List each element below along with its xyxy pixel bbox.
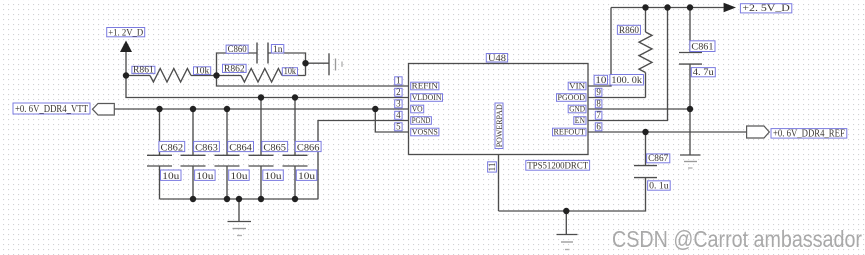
pin number box 2 bbox=[395, 88, 402, 96]
junction pin11 rail ground bbox=[563, 208, 569, 214]
svg-text:CSDN @Carrot ambassador: CSDN @Carrot ambassador bbox=[612, 226, 862, 252]
junction rail C865 bbox=[258, 196, 264, 202]
resistor R862 bbox=[241, 69, 282, 83]
svg-text:C865: C865 bbox=[263, 143, 286, 153]
wire VTT port to VO pin 3 bbox=[114, 108, 408, 110]
pin number box 4 bbox=[395, 111, 402, 119]
label box R862 bbox=[223, 64, 247, 72]
svg-text:C860: C860 bbox=[228, 44, 247, 54]
svg-text:C863: C863 bbox=[195, 143, 218, 153]
svg-text:10u: 10u bbox=[298, 172, 315, 182]
ground rail wire bbox=[160, 198, 319, 200]
svg-text:1n: 1n bbox=[273, 44, 283, 54]
pin number box 11 bbox=[488, 162, 497, 172]
ground (center left) bars bbox=[228, 221, 252, 223]
pin number box 6 bbox=[595, 123, 602, 131]
junction rail ground stem bbox=[236, 196, 242, 202]
capacitor C864 bbox=[215, 109, 240, 199]
svg-text:+0. 6V_DDR4_REF: +0. 6V_DDR4_REF bbox=[773, 128, 845, 139]
svg-text:GND: GND bbox=[569, 104, 585, 114]
label box VLDOIN bbox=[411, 94, 443, 102]
wire PGND pin 4 bbox=[318, 121, 409, 200]
label box TPS51200DRCT bbox=[526, 160, 590, 170]
svg-text:C867: C867 bbox=[648, 154, 669, 164]
wire EN pin 7 to +2.5V bbox=[588, 8, 668, 121]
capacitor C860 plates bbox=[257, 43, 268, 64]
svg-text:10: 10 bbox=[595, 76, 606, 86]
label box VO bbox=[411, 105, 424, 113]
label box C866 bbox=[295, 141, 321, 151]
svg-text:1: 1 bbox=[396, 76, 401, 86]
label box C863 bbox=[194, 141, 220, 151]
junction REFOUT/C867 bbox=[642, 129, 648, 135]
junction rail C863 bbox=[190, 196, 196, 202]
pin number box 8 bbox=[595, 100, 602, 108]
wire R861 row left bbox=[126, 75, 150, 77]
label box C861 bbox=[690, 41, 715, 52]
wire pin 11 to C867 bottom bbox=[499, 178, 646, 211]
junction 2.5V R860 bbox=[642, 4, 648, 10]
label box 10u C862 bbox=[161, 170, 182, 180]
wire C860 branch left bbox=[217, 53, 258, 76]
label box POWERPAD bbox=[495, 103, 503, 149]
wire R862 to node B bbox=[282, 75, 306, 77]
junction C862 top bbox=[156, 106, 162, 112]
label box +1.2V_D bbox=[107, 28, 145, 37]
label box 10u C865 bbox=[263, 170, 284, 180]
label box C867 bbox=[647, 154, 670, 163]
label box 10k R861 bbox=[194, 67, 211, 75]
junction GND/C861/ground bbox=[687, 106, 693, 112]
junction 2.5V C861 bbox=[687, 4, 693, 10]
ground (bottom center) bars bbox=[557, 234, 578, 236]
pin number box 10 bbox=[594, 75, 607, 84]
chip U48 body bbox=[409, 64, 589, 155]
pin number box 1 bbox=[395, 77, 402, 85]
wire R862 bottom branch left lead bbox=[217, 75, 242, 77]
port +0.6V_DDR4_REF pentagon bbox=[747, 126, 770, 138]
label box EN bbox=[574, 117, 586, 125]
svg-text:C864: C864 bbox=[229, 143, 252, 153]
resistor R861 bbox=[150, 69, 191, 83]
label box GND bbox=[568, 105, 586, 113]
svg-text:10u: 10u bbox=[231, 172, 248, 182]
svg-text:6: 6 bbox=[596, 122, 601, 132]
svg-text:VIN: VIN bbox=[569, 81, 586, 91]
label box +0.6V_DDR4_VTT bbox=[13, 103, 90, 114]
svg-text:11: 11 bbox=[487, 163, 497, 172]
wire +2.5V rail bbox=[611, 7, 724, 9]
label box REFOUT bbox=[553, 128, 587, 136]
svg-text:10k: 10k bbox=[195, 65, 210, 75]
junction node B ground tap bbox=[302, 60, 308, 66]
pin 11 POWERPAD stub bbox=[498, 155, 500, 212]
wire node A to REFIN pin 1 bbox=[217, 76, 409, 87]
label box PGND bbox=[411, 117, 432, 125]
wire PGOOD pin 9 bbox=[588, 97, 646, 99]
label box +2.5V_D bbox=[740, 4, 791, 13]
svg-text:10u: 10u bbox=[196, 172, 213, 182]
wire C860 branch right bbox=[268, 53, 306, 76]
power flag +2.5V_D triangle bbox=[724, 3, 736, 12]
svg-text:10u: 10u bbox=[162, 172, 179, 182]
svg-text:REFOUT: REFOUT bbox=[554, 127, 586, 137]
label box VIN bbox=[568, 82, 586, 90]
label box PGOOD bbox=[557, 94, 587, 102]
svg-text:TPS51200DRCT: TPS51200DRCT bbox=[527, 161, 588, 171]
svg-text:10u: 10u bbox=[265, 172, 282, 182]
junction node A R861/R862/REFIN bbox=[213, 72, 219, 78]
junction C865 top bbox=[258, 94, 264, 100]
label box C864 bbox=[228, 141, 254, 151]
svg-text:REFIN: REFIN bbox=[412, 81, 439, 91]
resistor R860 zigzag bbox=[639, 32, 652, 73]
junction C866 top bbox=[292, 94, 298, 100]
svg-text:0. 1u: 0. 1u bbox=[649, 182, 669, 192]
svg-text:R861: R861 bbox=[133, 65, 154, 75]
svg-text:VOSNS: VOSNS bbox=[412, 127, 438, 137]
pin number box 7 bbox=[595, 111, 602, 119]
svg-text:VO: VO bbox=[412, 104, 423, 114]
label box R861 bbox=[132, 66, 155, 73]
junction rail C866 bbox=[292, 196, 298, 202]
svg-text:PGND: PGND bbox=[412, 115, 431, 125]
ground (right) bars bbox=[680, 154, 701, 156]
label box +0.6V_DDR4_REF bbox=[771, 129, 847, 139]
power flag +1.2V_D stem bbox=[125, 52, 127, 76]
label box 10u C863 bbox=[195, 170, 216, 180]
label box 10k R862 bbox=[282, 68, 297, 76]
ground (right) stem bbox=[689, 109, 691, 155]
svg-text:R862: R862 bbox=[224, 63, 245, 73]
svg-text:EN: EN bbox=[575, 115, 586, 125]
svg-text:C862: C862 bbox=[161, 143, 184, 153]
svg-text:POWERPAD: POWERPAD bbox=[495, 104, 504, 147]
svg-text:4. 7u: 4. 7u bbox=[693, 68, 714, 78]
label box U48 bbox=[486, 54, 507, 63]
capacitor C865 bbox=[249, 98, 274, 200]
svg-text:U48: U48 bbox=[488, 53, 507, 63]
label box VOSNS bbox=[411, 128, 439, 136]
svg-text:8: 8 bbox=[596, 99, 601, 109]
svg-text:C861: C861 bbox=[691, 42, 713, 53]
label box 4.7u bbox=[691, 68, 715, 77]
wire R861 to node A bbox=[191, 75, 217, 77]
label box 10u C866 bbox=[296, 170, 317, 180]
pin number box 5 bbox=[395, 123, 402, 131]
power flag +1.2V_D triangle bbox=[120, 41, 132, 53]
svg-text:R860: R860 bbox=[619, 26, 639, 36]
svg-text:2: 2 bbox=[396, 87, 401, 97]
label box R860 bbox=[617, 25, 640, 34]
junction C864 top bbox=[224, 106, 230, 112]
svg-text:+1. 2V_D: +1. 2V_D bbox=[108, 28, 143, 38]
label box 10u C864 bbox=[229, 170, 250, 180]
svg-text:PGOOD: PGOOD bbox=[558, 92, 586, 102]
svg-text:VLDOIN: VLDOIN bbox=[412, 92, 443, 102]
capacitor C863 bbox=[181, 109, 206, 199]
ground (bottom center) stem bbox=[565, 211, 567, 235]
svg-text:4: 4 bbox=[396, 110, 401, 120]
ground (sideways, node B) bbox=[328, 53, 330, 75]
junction node +1.2V/R861 bbox=[123, 72, 129, 78]
label box REFIN bbox=[411, 82, 439, 90]
wire VIN pin 10 bbox=[588, 8, 611, 87]
svg-text:5: 5 bbox=[396, 122, 401, 132]
label box C865 bbox=[262, 141, 288, 151]
capacitor C861 bbox=[679, 8, 702, 110]
label box 1n bbox=[271, 45, 283, 54]
pin number box 9 bbox=[595, 88, 602, 96]
svg-text:C866: C866 bbox=[297, 143, 320, 153]
svg-text:9: 9 bbox=[596, 87, 601, 97]
svg-text:+0. 6V_DDR4_VTT: +0. 6V_DDR4_VTT bbox=[15, 104, 89, 115]
junction C863 top bbox=[190, 106, 196, 112]
wire node B to ground bbox=[306, 62, 330, 64]
label box 100.0k bbox=[610, 75, 644, 86]
capacitor C866 bbox=[283, 98, 308, 200]
junction 2.5V EN bbox=[664, 4, 670, 10]
svg-text:7: 7 bbox=[596, 110, 601, 120]
pin number box 3 bbox=[395, 100, 402, 108]
port +0.6V_DDR4_VTT pentagon bbox=[93, 104, 115, 116]
wire GND pin 8 bbox=[588, 108, 690, 110]
svg-text:10k: 10k bbox=[284, 66, 297, 76]
junction VOSNS tap bbox=[372, 106, 378, 112]
ground (center left) stem bbox=[238, 199, 240, 222]
junction rail C864 bbox=[224, 196, 230, 202]
svg-text:+2. 5V_D: +2. 5V_D bbox=[742, 3, 789, 14]
capacitor C867 bbox=[634, 132, 657, 178]
wire REFOUT pin 6 to REF port bbox=[588, 131, 747, 133]
svg-text:3: 3 bbox=[396, 99, 401, 109]
svg-text:100. 0k: 100. 0k bbox=[611, 75, 642, 86]
wire VOSNS sense to VO bbox=[375, 109, 408, 132]
label box C860 bbox=[226, 45, 248, 53]
capacitor C862 bbox=[147, 109, 172, 199]
wire +1.2V to VLDOIN pin 2 bbox=[126, 76, 409, 98]
label box 0.1u bbox=[648, 181, 671, 190]
resistor R860 leads bbox=[645, 8, 647, 98]
label box C862 bbox=[159, 141, 185, 151]
